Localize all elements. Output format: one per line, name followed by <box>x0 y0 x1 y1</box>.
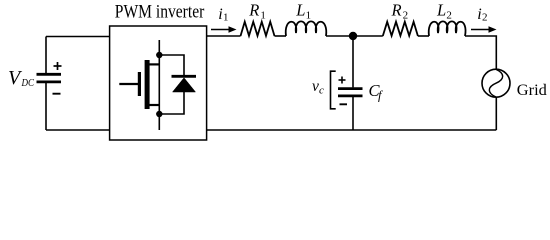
transistor Q1 gate lead <box>119 83 138 85</box>
resistor R1 <box>241 22 275 36</box>
AC source: Grid circle <box>482 69 510 97</box>
wire: bottom rail <box>207 129 497 131</box>
DC source VDC plates <box>37 74 62 82</box>
wire: VDC upper vertical <box>45 37 47 74</box>
label i2 <box>477 6 487 23</box>
current arrow i1 <box>211 26 237 33</box>
wire: inverter internal vertical with stubs <box>158 40 160 130</box>
inductor L1 <box>286 21 327 36</box>
transistor Q1 source lead <box>147 104 159 106</box>
svg-text:R: R <box>391 1 402 20</box>
wire: diode branch top <box>159 55 184 75</box>
svg-text:2: 2 <box>482 11 488 23</box>
wire: L1 to R2 <box>326 35 383 37</box>
wire: R1 to L1 <box>275 35 287 37</box>
label R1 <box>248 1 266 22</box>
current arrow i2 <box>471 26 497 33</box>
DC source VDC top wire <box>46 36 110 38</box>
svg-text:1: 1 <box>223 11 229 23</box>
svg-text:DC: DC <box>21 78 35 89</box>
svg-text:2: 2 <box>446 10 452 22</box>
capacitor Cf plates <box>338 89 363 96</box>
svg-text:1: 1 <box>260 10 266 22</box>
svg-text:L: L <box>436 1 446 20</box>
label L2 <box>436 1 452 22</box>
svg-text:1: 1 <box>306 10 312 22</box>
wire: L2 to grid corner <box>465 36 496 69</box>
svg-text:L: L <box>295 1 305 20</box>
svg-text:v: v <box>312 78 319 95</box>
wire: node to Cf <box>352 36 354 87</box>
plus sign of VDC <box>54 62 62 70</box>
minus sign of VDC <box>53 93 61 95</box>
node: filter tap junction <box>349 32 357 40</box>
wire: R2 to L2 <box>418 35 429 37</box>
transistor Q1 drain lead <box>147 63 159 65</box>
svg-text:2: 2 <box>403 10 409 22</box>
wire: Cf to bottom rail <box>352 97 354 130</box>
label R2 <box>391 1 409 22</box>
AC source sine wave <box>489 69 502 97</box>
label L1 <box>295 1 311 22</box>
diode D1 cathode bar <box>172 75 197 78</box>
transistor Q1 gate bar <box>138 72 141 96</box>
bracket for vc <box>331 71 336 109</box>
svg-text:R: R <box>248 1 259 20</box>
wire: VDC lower vertical <box>45 83 47 131</box>
svg-text:c: c <box>319 85 324 97</box>
plus sign of vc <box>339 77 346 84</box>
label i1 <box>218 6 228 23</box>
transistor Q1 channel bar <box>145 60 150 109</box>
junction dot bottom <box>156 111 162 117</box>
diode D1 triangle (pointing up) <box>173 78 196 92</box>
inductor L2 <box>429 21 466 36</box>
wire: VDC bottom wire <box>46 129 110 131</box>
svg-text:Grid: Grid <box>517 82 547 99</box>
label VDC <box>8 67 35 89</box>
PWM inverter box <box>110 26 207 140</box>
wire: grid bottom stub <box>495 97 497 130</box>
label vc <box>312 78 324 97</box>
junction dot top <box>156 52 162 58</box>
wire: diode branch bottom <box>159 92 184 114</box>
wire: inverter output to R1 <box>207 35 241 37</box>
resistor R2 <box>383 22 418 36</box>
label Cf <box>369 81 384 103</box>
svg-text:f: f <box>378 89 383 103</box>
minus sign of vc <box>340 103 348 105</box>
svg-text:PWM inverter: PWM inverter <box>115 2 205 23</box>
